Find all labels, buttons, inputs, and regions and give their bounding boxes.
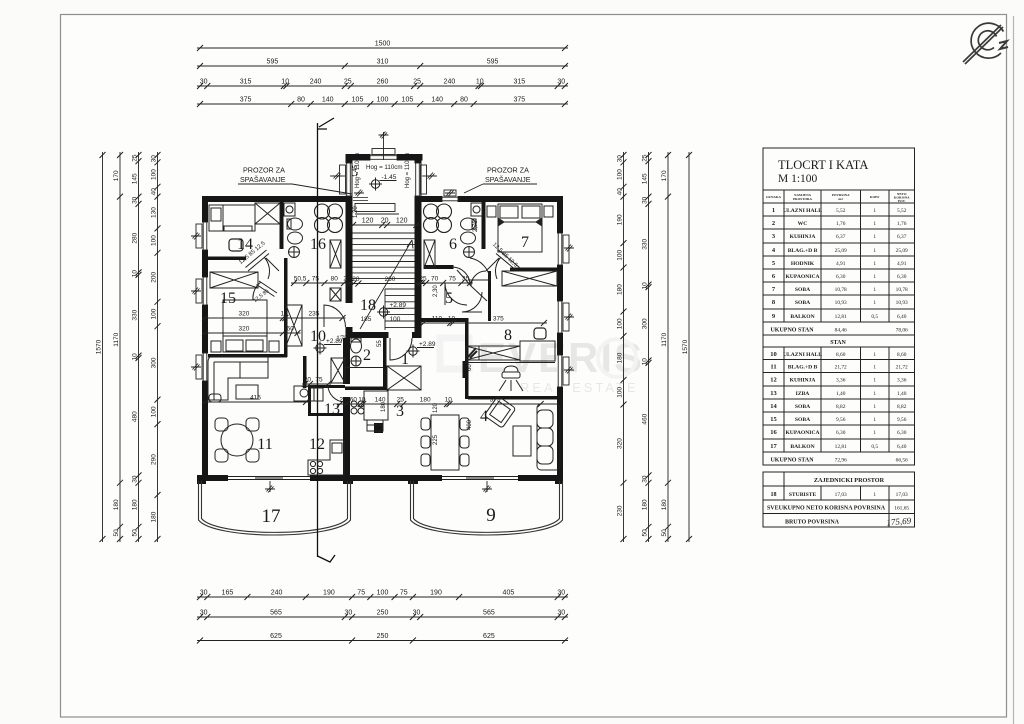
kitchen island room 3 xyxy=(364,391,388,420)
svg-text:200: 200 xyxy=(150,271,157,282)
armchair room 4 xyxy=(484,396,516,428)
svg-text:12: 12 xyxy=(770,377,777,384)
svg-text:PROZOR ZA: PROZOR ZA xyxy=(243,166,285,175)
wall: balcony 9 corner stub left xyxy=(408,475,418,484)
wall: room 8 bottom wall xyxy=(468,396,563,400)
svg-text:1: 1 xyxy=(873,404,876,410)
wall: wall rooms 14/15 xyxy=(205,257,246,261)
bed room 7 xyxy=(487,204,553,252)
svg-text:Hog = 110cm: Hog = 110cm xyxy=(405,153,411,188)
svg-text:84,46: 84,46 xyxy=(835,328,847,334)
level mark stair mid landing xyxy=(369,178,397,191)
svg-text:120: 120 xyxy=(362,218,374,225)
svg-text:260: 260 xyxy=(377,79,389,86)
svg-text:105: 105 xyxy=(352,97,364,104)
dimension chain top row 4 xyxy=(197,103,568,105)
wall: stair tower bottom right part xyxy=(412,332,422,338)
svg-text:50: 50 xyxy=(113,529,120,537)
entrance door apartment right xyxy=(390,338,412,360)
svg-text:110: 110 xyxy=(432,316,443,323)
svg-text:2,30: 2,30 xyxy=(433,285,439,297)
svg-text:10: 10 xyxy=(281,79,289,86)
wall: stair tower left upper xyxy=(346,154,353,203)
svg-text:300: 300 xyxy=(641,318,648,329)
svg-text:10,93: 10,93 xyxy=(896,300,908,306)
corner tub room 6 xyxy=(424,204,452,233)
svg-text:185: 185 xyxy=(361,316,372,323)
wall: room 13 top wall xyxy=(308,385,345,388)
svg-text:66,56: 66,56 xyxy=(896,458,908,464)
svg-text:10: 10 xyxy=(280,311,288,318)
wall: room 13 bottom wall xyxy=(308,413,345,416)
svg-text:190: 190 xyxy=(323,590,335,597)
svg-text:30: 30 xyxy=(557,590,565,597)
dimension chain right total 1570 xyxy=(688,152,690,542)
window left wall upper xyxy=(202,222,208,250)
svg-text:1: 1 xyxy=(873,430,876,436)
svg-text:460: 460 xyxy=(641,413,648,424)
svg-text:100: 100 xyxy=(150,308,157,319)
svg-text:STUBISTE: STUBISTE xyxy=(789,492,817,498)
area table common spaces xyxy=(763,472,915,527)
svg-text:1: 1 xyxy=(873,417,876,423)
svg-text:2: 2 xyxy=(363,347,371,364)
svg-text:1,40: 1,40 xyxy=(836,391,846,397)
svg-text:130: 130 xyxy=(150,207,157,218)
svg-text:25: 25 xyxy=(131,154,138,162)
radiator stairwell xyxy=(355,204,399,215)
svg-text:9,56: 9,56 xyxy=(836,417,846,423)
tower top window axis leader xyxy=(383,132,385,160)
svg-text:6,30: 6,30 xyxy=(836,430,846,436)
svg-text:OZNAKA: OZNAKA xyxy=(766,195,781,199)
svg-text:KUPAONICA: KUPAONICA xyxy=(785,274,819,280)
svg-text:30: 30 xyxy=(557,79,565,86)
svg-text:+2.89: +2.89 xyxy=(390,302,407,309)
svg-text:SPAŠAVANJE: SPAŠAVANJE xyxy=(240,175,286,184)
svg-text:140: 140 xyxy=(375,397,386,404)
svg-text:330: 330 xyxy=(641,238,648,249)
dimension chain room11 415 xyxy=(202,401,309,403)
wall: wc2 bottom wall xyxy=(345,387,387,391)
svg-text:0,5: 0,5 xyxy=(871,444,878,450)
wall: wall rooms 6/7 xyxy=(482,199,486,249)
svg-text:1: 1 xyxy=(873,365,876,371)
staircase direction line xyxy=(360,240,413,329)
svg-text:20: 20 xyxy=(304,377,312,384)
svg-text:30: 30 xyxy=(131,196,138,204)
svg-text:BALKON: BALKON xyxy=(790,314,814,320)
svg-text:1,40: 1,40 xyxy=(897,391,907,397)
desk room 8 xyxy=(520,341,555,361)
svg-text:ULAZNI HALL: ULAZNI HALL xyxy=(783,352,822,358)
fridge room 13 xyxy=(310,388,323,401)
svg-text:15: 15 xyxy=(770,416,777,423)
svg-text:PROSTORA: PROSTORA xyxy=(793,197,812,201)
svg-text:1: 1 xyxy=(873,287,876,293)
svg-text:18: 18 xyxy=(360,297,376,314)
window left wall lower xyxy=(202,353,208,381)
svg-text:25: 25 xyxy=(641,154,648,162)
svg-text:6,37: 6,37 xyxy=(897,234,907,240)
section cut line xyxy=(318,118,335,557)
svg-text:5,52: 5,52 xyxy=(836,208,846,214)
svg-text:50: 50 xyxy=(641,529,648,537)
svg-text:3,36: 3,36 xyxy=(836,378,846,384)
axis mark balcony left door xyxy=(265,486,275,493)
svg-text:30: 30 xyxy=(200,79,208,86)
svg-text:55: 55 xyxy=(377,340,383,347)
wardrobe hall 5 xyxy=(502,271,557,286)
axis mark left lower xyxy=(191,364,201,371)
dimension chain hall5 dims xyxy=(417,282,473,284)
axis mark balcony right door xyxy=(482,486,492,493)
door arc hall 10 to stairs xyxy=(324,305,346,327)
dimension chain right row 2 xyxy=(648,152,650,542)
svg-text:STAN: STAN xyxy=(830,340,846,346)
svg-text:6,30: 6,30 xyxy=(897,274,907,280)
window right wall upper xyxy=(557,233,563,265)
svg-text:180: 180 xyxy=(420,397,431,404)
svg-text:30: 30 xyxy=(413,610,421,617)
dimension chain stair width 120 20 120 xyxy=(350,224,419,226)
svg-text:40: 40 xyxy=(616,188,623,196)
axis mark right upper xyxy=(564,245,574,252)
svg-text:100: 100 xyxy=(390,316,401,323)
svg-text:WC: WC xyxy=(798,221,808,227)
svg-text:21,72: 21,72 xyxy=(835,365,847,371)
svg-text:30: 30 xyxy=(200,610,208,617)
svg-text:2,70: 2,70 xyxy=(473,220,479,232)
svg-text:75: 75 xyxy=(315,377,323,384)
corner tub room 16 xyxy=(315,204,343,233)
door arc room 13 xyxy=(328,385,345,402)
wall: wall rooms 14/16 xyxy=(280,199,284,249)
watermark EVERIS xyxy=(440,334,644,395)
svg-text:6,30: 6,30 xyxy=(897,430,907,436)
shelf line room 8 xyxy=(466,362,555,364)
svg-text:20: 20 xyxy=(352,276,360,283)
svg-text:140: 140 xyxy=(431,97,443,104)
level mark hall 10 level xyxy=(314,342,342,355)
svg-text:10: 10 xyxy=(131,353,138,361)
escape window left (gap in tower wall) xyxy=(353,197,368,202)
sink room 6 xyxy=(461,232,476,258)
coffee table room 11 xyxy=(236,385,258,399)
svg-text:280: 280 xyxy=(131,232,138,243)
svg-text:25,09: 25,09 xyxy=(835,248,847,254)
window right wall middle xyxy=(557,301,563,333)
svg-text:10: 10 xyxy=(641,358,648,366)
axis mark left middle xyxy=(191,288,201,295)
axis mark right lower xyxy=(564,367,574,374)
svg-text:30: 30 xyxy=(131,475,138,483)
tower side axis leaders xyxy=(330,175,345,177)
svg-text:180: 180 xyxy=(661,499,668,510)
nightstand left room 15 xyxy=(211,341,221,352)
svg-text:KUHINJA: KUHINJA xyxy=(790,234,816,240)
svg-text:180: 180 xyxy=(131,499,138,510)
svg-text:10: 10 xyxy=(310,328,326,345)
svg-text:8,60: 8,60 xyxy=(836,352,846,358)
diagonal door room 14 xyxy=(246,250,280,279)
wall: balcony 17 corner stub right xyxy=(343,475,353,484)
svg-text:6,30: 6,30 xyxy=(836,274,846,280)
svg-text:330: 330 xyxy=(131,309,138,320)
svg-text:240: 240 xyxy=(271,590,283,597)
svg-text:15: 15 xyxy=(220,290,236,307)
wall: wc2 right wall xyxy=(383,338,387,390)
svg-text:70: 70 xyxy=(431,276,439,283)
toilet room 6 xyxy=(461,218,477,230)
svg-text:180: 180 xyxy=(641,499,648,510)
svg-text:320: 320 xyxy=(238,311,249,318)
svg-text:240: 240 xyxy=(444,79,456,86)
wall: party wall lower xyxy=(343,397,350,475)
dimension chain top row 2 xyxy=(197,65,568,67)
wall: room 8 niche wall xyxy=(463,361,466,378)
svg-text:1: 1 xyxy=(873,261,876,267)
svg-text:1: 1 xyxy=(873,352,876,358)
svg-text:10: 10 xyxy=(448,316,456,323)
svg-text:16: 16 xyxy=(770,429,777,436)
svg-text:1500: 1500 xyxy=(375,41,391,48)
svg-text:10: 10 xyxy=(641,282,648,290)
toilet room 16 xyxy=(287,218,303,230)
svg-text:8,82: 8,82 xyxy=(836,404,846,410)
svg-text:12,81: 12,81 xyxy=(835,444,847,450)
svg-text:13: 13 xyxy=(770,390,777,397)
svg-text:145: 145 xyxy=(131,173,138,184)
window right wall lower xyxy=(557,355,563,387)
wardrobe room 8 xyxy=(466,346,520,360)
svg-text:565: 565 xyxy=(270,610,282,617)
dimension chain main dims row xyxy=(337,403,544,405)
svg-text:POV.: POV. xyxy=(898,199,906,203)
closet hall 10 xyxy=(286,305,302,346)
company logo (stylized e with slash and z) xyxy=(963,23,1008,64)
svg-text:10: 10 xyxy=(358,397,366,404)
svg-text:375: 375 xyxy=(513,97,525,104)
svg-text:25: 25 xyxy=(343,276,351,283)
svg-text:10,78: 10,78 xyxy=(896,287,908,293)
svg-text:1,20: 1,20 xyxy=(353,206,359,218)
svg-text:18: 18 xyxy=(771,492,777,498)
wall: room 8 left wall xyxy=(465,321,469,399)
wall: room 13 left wall xyxy=(308,385,311,416)
axis mark tower top xyxy=(379,132,389,139)
dimension chain top row 3 xyxy=(197,85,568,87)
wardrobe room 15 xyxy=(210,272,258,288)
svg-text:310: 310 xyxy=(377,59,389,66)
axis mark tower left xyxy=(332,173,342,180)
svg-text:625: 625 xyxy=(270,633,282,640)
svg-text:10: 10 xyxy=(770,351,777,358)
svg-text:190: 190 xyxy=(616,214,623,225)
svg-text:50: 50 xyxy=(131,529,138,537)
svg-text:315: 315 xyxy=(240,79,252,86)
svg-text:320: 320 xyxy=(616,438,623,449)
svg-text:BLAG.+D B: BLAG.+D B xyxy=(788,248,818,254)
wall: right exterior xyxy=(557,196,563,481)
level mark landing 18 xyxy=(377,306,405,319)
svg-text:165: 165 xyxy=(222,590,234,597)
svg-text:BRUTO POVRSINA: BRUTO POVRSINA xyxy=(785,520,840,526)
window stair tower top window xyxy=(370,155,397,161)
svg-text:SVEUKUPNO NETO KORISNA POVRSIN: SVEUKUPNO NETO KORISNA POVRSINA xyxy=(767,506,886,512)
svg-text:1170: 1170 xyxy=(113,332,120,346)
svg-text:KUPAONICA: KUPAONICA xyxy=(785,430,819,436)
svg-text:4: 4 xyxy=(480,408,488,425)
svg-text:78,06: 78,06 xyxy=(896,328,908,334)
svg-text:SPAŠAVANJE: SPAŠAVANJE xyxy=(485,175,531,184)
svg-text:105: 105 xyxy=(402,97,414,104)
dimension chain bottom row 2 xyxy=(197,616,568,618)
svg-text:315: 315 xyxy=(513,79,525,86)
svg-text:10: 10 xyxy=(476,79,484,86)
svg-text:2: 2 xyxy=(772,220,775,227)
washing machine room 16 xyxy=(284,203,295,216)
wall: wall room 15 bottom xyxy=(205,354,287,358)
staircase treads lower flight xyxy=(385,289,415,327)
wall: party wall left apartment/stairs xyxy=(343,338,350,384)
svg-text:17: 17 xyxy=(262,506,281,527)
svg-text:375: 375 xyxy=(493,316,504,323)
svg-text:25: 25 xyxy=(344,79,352,86)
svg-text:100: 100 xyxy=(616,249,623,260)
svg-text:10,78: 10,78 xyxy=(835,287,847,293)
svg-text:180: 180 xyxy=(616,284,623,295)
svg-text:145: 145 xyxy=(641,173,648,184)
dimension chain bottom row 3 xyxy=(197,640,568,642)
svg-text:25,09: 25,09 xyxy=(896,248,908,254)
svg-text:595: 595 xyxy=(487,59,499,66)
svg-text:180: 180 xyxy=(113,499,120,510)
svg-text:BALKON: BALKON xyxy=(790,444,814,450)
svg-text:75: 75 xyxy=(312,276,320,283)
dimension chain room15 320 lower xyxy=(202,332,301,334)
svg-text:12,81: 12,81 xyxy=(835,314,847,320)
svg-text:405: 405 xyxy=(503,590,515,597)
svg-text:3,36: 3,36 xyxy=(897,378,907,384)
dimension chain left row 4 xyxy=(157,152,159,542)
window escape window right xyxy=(442,196,458,202)
svg-text:100: 100 xyxy=(377,590,389,597)
svg-text:4,91: 4,91 xyxy=(897,261,907,267)
bed room 14 xyxy=(209,205,255,231)
scan edge line right xyxy=(1013,16,1015,724)
svg-text:180: 180 xyxy=(150,511,157,522)
svg-text:SOBA: SOBA xyxy=(795,287,810,293)
svg-text:9: 9 xyxy=(486,505,496,526)
axis mark escape left xyxy=(354,190,364,197)
svg-text:14: 14 xyxy=(770,403,777,410)
svg-text:m2: m2 xyxy=(838,197,843,201)
svg-text:10: 10 xyxy=(445,397,453,404)
svg-text:12: 12 xyxy=(309,436,325,453)
table header xyxy=(766,192,910,203)
dimension chain hall dims 20 75 xyxy=(302,383,331,385)
icon chair room 14 xyxy=(229,239,243,251)
svg-text:UKUPNO STAN: UKUPNO STAN xyxy=(770,458,814,464)
svg-text:1170: 1170 xyxy=(661,332,668,346)
svg-text:PROZOR ZA: PROZOR ZA xyxy=(487,166,529,175)
svg-text:400: 400 xyxy=(467,419,473,430)
washing machine room 6 xyxy=(471,203,482,216)
svg-text:1: 1 xyxy=(873,274,876,280)
svg-text:100: 100 xyxy=(616,386,623,397)
svg-text:1: 1 xyxy=(873,492,876,498)
balcony sliding door right xyxy=(442,475,518,481)
svg-text:17: 17 xyxy=(770,443,777,450)
staircase center divider xyxy=(384,289,386,330)
closet hall 1 xyxy=(387,366,421,390)
svg-text:80: 80 xyxy=(460,97,468,104)
svg-text:8,60: 8,60 xyxy=(897,352,907,358)
svg-text:1: 1 xyxy=(873,248,876,254)
balcony 9 parapet xyxy=(411,481,563,535)
svg-text:225: 225 xyxy=(433,434,439,445)
svg-text:100: 100 xyxy=(150,169,157,180)
table body rows flat 1 xyxy=(770,207,908,463)
wall: bottom exterior xyxy=(202,475,563,481)
svg-text:595: 595 xyxy=(267,59,279,66)
svg-text:290: 290 xyxy=(150,454,157,465)
sofa room 11 xyxy=(208,356,268,402)
svg-text:ULAZNI HALL: ULAZNI HALL xyxy=(783,208,822,214)
svg-text:161,65: 161,65 xyxy=(894,506,909,512)
svg-text:6,37: 6,37 xyxy=(836,234,846,240)
closet hall 13 xyxy=(331,358,345,383)
svg-text:11: 11 xyxy=(257,436,272,453)
svg-text:30: 30 xyxy=(616,155,623,163)
svg-text:250: 250 xyxy=(377,633,389,640)
svg-text:1570: 1570 xyxy=(95,339,102,354)
wall: room 8 top wall xyxy=(510,268,563,272)
svg-text:100: 100 xyxy=(377,97,389,104)
svg-text:11: 11 xyxy=(770,364,776,371)
dimension chain right row 3 xyxy=(667,152,669,542)
sink room 16 xyxy=(289,247,300,258)
dimension chain left total 1570 xyxy=(102,152,104,542)
wall: balcony 17 corner stub left xyxy=(197,475,206,484)
window left wall middle xyxy=(202,277,208,305)
balcony sliding door left xyxy=(228,475,310,481)
svg-text:KUHINJA: KUHINJA xyxy=(790,378,816,384)
mirror box room 8 xyxy=(466,346,479,360)
svg-text:17,03: 17,03 xyxy=(896,492,908,498)
svg-text:1: 1 xyxy=(873,221,876,227)
svg-text:-1.45: -1.45 xyxy=(382,174,397,181)
svg-text:30: 30 xyxy=(200,590,208,597)
axis mark left upper xyxy=(191,233,201,240)
svg-text:100: 100 xyxy=(616,169,623,180)
sink room 3 xyxy=(367,420,383,431)
wall: top exterior left apartment xyxy=(202,196,347,202)
svg-text:20: 20 xyxy=(381,218,389,225)
svg-text:50,5: 50,5 xyxy=(294,276,307,283)
svg-text:1: 1 xyxy=(873,234,876,240)
svg-text:IZBA: IZBA xyxy=(796,391,810,397)
svg-text:235: 235 xyxy=(308,311,319,318)
svg-text:6: 6 xyxy=(449,236,457,253)
hob room 3 xyxy=(351,401,364,414)
balcony door axis marks xyxy=(269,481,271,492)
dimension chain left row 2 xyxy=(119,152,121,542)
sofa room 4 xyxy=(537,404,560,470)
kitchen 12 upper counter xyxy=(294,386,314,401)
wall: stair tower right upper xyxy=(415,154,422,203)
